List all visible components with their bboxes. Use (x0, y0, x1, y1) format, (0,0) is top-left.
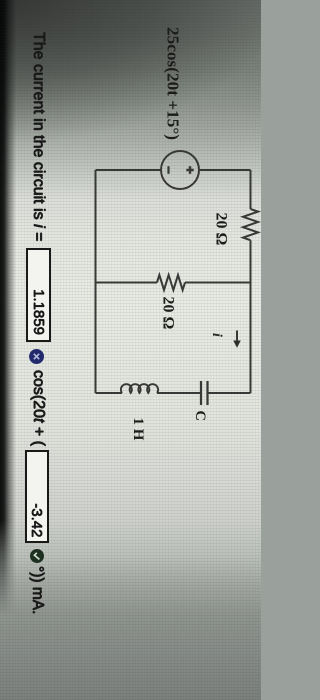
wire right branch upper (208, 392, 251, 394)
capacitor C plates (201, 381, 208, 405)
svg-text:25cos(20t +15°): 25cos(20t +15°) (164, 27, 183, 140)
wire left branch upper segment (199, 169, 251, 171)
answer box 2 value -3.42 (26, 450, 50, 544)
wrong mark icon (blue x) (30, 349, 45, 364)
inductor L 1H coil (121, 384, 158, 393)
wire top left segment (250, 170, 252, 209)
voltage source VS circle (161, 151, 199, 189)
plus sign of source (186, 166, 194, 174)
wire left branch lower segment (96, 169, 162, 171)
answer sentence part 1 (29, 32, 47, 241)
answer sentence part 3 (29, 566, 47, 614)
svg-text:C: C (192, 411, 208, 421)
svg-text:20 Ω: 20 Ω (160, 297, 177, 330)
svg-text:1 H: 1 H (130, 418, 146, 441)
wire top right segment (250, 240, 252, 393)
wire bottom (95, 170, 97, 393)
current arrow i (236, 331, 238, 342)
answer sentence part 2 (29, 370, 47, 446)
correct mark icon (green check) (30, 549, 44, 563)
resistor R2 zigzag (20 ohm, middle) (157, 275, 185, 290)
wire middle branch lower (96, 282, 158, 284)
svg-text:i: i (209, 333, 224, 337)
wire right branch lower (96, 392, 123, 394)
wire middle branch upper (185, 282, 251, 284)
wire between capacitor and inductor (157, 392, 201, 394)
answer box 1 value 1.1859 (27, 248, 52, 342)
resistor R1 zigzag (20 ohm, top) (243, 209, 258, 240)
svg-text:20 Ω: 20 Ω (213, 213, 230, 246)
minus sign of source (167, 166, 169, 174)
